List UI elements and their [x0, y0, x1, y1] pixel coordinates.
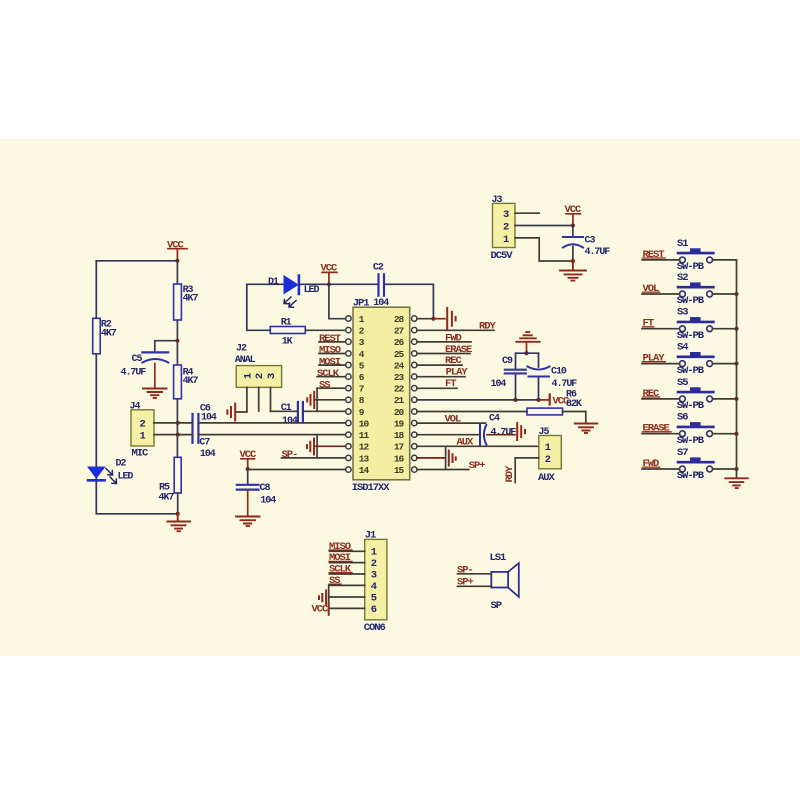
- svg-text:DC5V: DC5V: [491, 250, 514, 262]
- svg-text:104: 104: [200, 449, 216, 460]
- ground (pin16, sideways right): [449, 451, 456, 466]
- power VCC (J1 pin6): [312, 603, 330, 616]
- svg-text:REC: REC: [445, 355, 463, 367]
- node: bottom ground junction: [176, 512, 180, 516]
- net label MISO / wire: J1 pin1: [329, 541, 365, 553]
- net label SP- / wire: LS1 top: [457, 564, 491, 576]
- wire: pin20 row through R6 to ground: [417, 412, 586, 423]
- wire: S7 to bus: [713, 468, 737, 470]
- svg-text:4.7UF: 4.7UF: [552, 379, 578, 390]
- wire: FT to S3: [642, 328, 680, 330]
- wire: J1 pin6: [329, 607, 365, 609]
- wire: C7 row (pin11 net): [178, 434, 346, 436]
- wire: bottom horizontal (D2 branch to ground node): [96, 513, 177, 515]
- svg-text:26: 26: [394, 337, 405, 348]
- wire: J3 pin3 stub: [515, 212, 539, 214]
- capacitor C4 4.7UF: [480, 414, 516, 445]
- svg-text:REC: REC: [643, 388, 661, 400]
- node: pin28/C2 junction: [431, 317, 435, 321]
- svg-text:1: 1: [140, 431, 146, 443]
- capacitor C3 4.7UF: [563, 226, 610, 262]
- node: J3 pin2/C3 junction: [571, 223, 575, 227]
- svg-text:S3: S3: [677, 307, 688, 319]
- wire: J3 pin2 to VCC node: [515, 225, 573, 227]
- ground (right of C4, sideways): [517, 423, 525, 440]
- net label SP+ / wire: LS1 bottom: [457, 577, 491, 589]
- node: J4 pin1 / C7 row junction: [176, 433, 180, 437]
- svg-text:LED: LED: [304, 285, 320, 296]
- svg-text:1: 1: [371, 547, 377, 559]
- svg-text:11: 11: [359, 430, 370, 441]
- wire: button bus vertical: [736, 260, 738, 478]
- svg-text:SW-PB: SW-PB: [677, 330, 705, 342]
- net label SP+ / wire: pin15 row: [417, 460, 485, 472]
- IC pin circles left: [346, 316, 417, 473]
- wire: J2 pin2 stub: [258, 387, 260, 411]
- wire: S4 to bus: [713, 363, 737, 365]
- svg-text:D1: D1: [268, 277, 279, 288]
- svg-text:4K7: 4K7: [183, 376, 199, 387]
- net label REC (S5): [643, 388, 661, 400]
- node: C3/ground junction: [571, 259, 575, 263]
- svg-text:C9: C9: [502, 356, 513, 367]
- svg-text:REST: REST: [643, 249, 665, 261]
- ground (below R6): [575, 424, 598, 434]
- net label REC / wire: pin24 row: [417, 355, 463, 367]
- capacitor C6 104: [193, 404, 217, 460]
- ground (below C3): [560, 261, 586, 281]
- wire: VOL to S2: [642, 293, 680, 295]
- svg-text:4.7UF: 4.7UF: [585, 247, 611, 258]
- svg-text:1: 1: [503, 234, 509, 246]
- svg-text:2: 2: [503, 221, 509, 233]
- connector J1 CON6: [364, 530, 387, 634]
- wire: pins 11-13 vertical bus: [316, 435, 318, 458]
- ground (below R5): [168, 514, 191, 531]
- wire: S3 to bus: [713, 328, 737, 330]
- svg-text:2: 2: [545, 454, 551, 466]
- svg-text:82K: 82K: [566, 399, 582, 410]
- svg-text:22: 22: [394, 384, 405, 395]
- svg-text:AUX: AUX: [538, 472, 556, 484]
- net label ERASE (S6): [643, 423, 672, 435]
- wire: R3/R4 column: [176, 261, 178, 458]
- svg-text:MISO: MISO: [319, 345, 341, 357]
- net label SCLK / wire: J1 pin3: [329, 564, 365, 576]
- svg-text:VOL: VOL: [445, 414, 462, 426]
- ground (above C9/C10, pointing up): [516, 332, 539, 342]
- svg-text:FWD: FWD: [643, 458, 660, 470]
- svg-text:REST: REST: [319, 333, 341, 345]
- resistor R1: [270, 318, 305, 348]
- ground (pin12, sideways): [307, 439, 314, 455]
- svg-text:C2: C2: [373, 262, 384, 273]
- node: C10 bottom junction: [536, 398, 540, 402]
- wire: J1 pin5: [329, 596, 365, 598]
- resistor R6 82K: [527, 390, 582, 415]
- wire: J4 pin1 to node: [154, 434, 178, 436]
- switch S1 SW-PB: [677, 238, 714, 273]
- node: bus junction S3: [735, 327, 739, 331]
- wire: J3 pin1 to ground node: [515, 238, 573, 261]
- net label VOL / wire: pin19 row: [417, 414, 486, 426]
- svg-text:S1: S1: [677, 238, 688, 250]
- capacitor C8 104: [237, 469, 276, 507]
- svg-text:2: 2: [371, 558, 377, 570]
- wire: VCC node to left branch: [96, 260, 177, 262]
- svg-text:17: 17: [394, 442, 405, 453]
- net label MISO / wire: pin4 row: [319, 345, 346, 357]
- svg-text:1K: 1K: [282, 337, 293, 348]
- net label VOL (S2): [643, 283, 660, 295]
- svg-text:SW-PB: SW-PB: [677, 470, 705, 482]
- wire: S5 to bus: [713, 398, 737, 400]
- svg-text:CON6: CON6: [364, 622, 386, 634]
- net label SS / wire: J1 pin4: [329, 575, 365, 587]
- power VCC (C8 / pin14 net): [240, 449, 258, 467]
- svg-text:ANAL: ANAL: [235, 355, 256, 366]
- ground (button bus): [725, 478, 747, 488]
- ground (pin28, sideways right): [447, 308, 455, 330]
- svg-text:4K7: 4K7: [183, 294, 199, 305]
- svg-text:MOSI: MOSI: [319, 356, 341, 368]
- net label MOSI / wire: pin5 row: [319, 356, 346, 368]
- svg-text:28: 28: [394, 314, 405, 325]
- svg-text:3: 3: [503, 209, 509, 221]
- wire: pin18 row through C4 to ground: [417, 434, 480, 436]
- wire: VCC node down to pin1: [329, 284, 346, 318]
- wire: pin21 row (VCC net): [417, 399, 539, 401]
- net label ERASE / wire: pin25 row: [417, 344, 472, 356]
- power VCC (pin21 net): [550, 395, 570, 408]
- wire: J1 pins 4-6 vertical bus: [328, 585, 330, 603]
- wire: D1 to VCC node: [300, 283, 329, 285]
- svg-text:SS: SS: [319, 379, 330, 391]
- capacitor C2 104: [329, 262, 389, 309]
- wire: ground stem to C9/C10 top bus: [526, 343, 528, 354]
- svg-text:27: 27: [394, 326, 405, 337]
- svg-text:RDY: RDY: [479, 321, 497, 333]
- wire: C8 to ground: [247, 491, 249, 516]
- svg-text:VCC: VCC: [167, 239, 185, 251]
- node: VCC/D1/C2/pin1 junction: [327, 282, 331, 286]
- svg-text:PLAY: PLAY: [446, 367, 469, 379]
- wire: PLAY to S4: [642, 363, 680, 365]
- net label MOSI / wire: J1 pin2: [329, 552, 365, 564]
- svg-text:1: 1: [545, 442, 551, 454]
- ground (pin8, sideways): [307, 392, 314, 408]
- LED D1: [247, 276, 320, 308]
- svg-text:1: 1: [242, 373, 254, 379]
- wire: pin16 row to ground: [417, 457, 446, 459]
- switch S3 SW-PB: [677, 307, 714, 342]
- svg-text:4K7: 4K7: [101, 328, 117, 339]
- svg-text:C4: C4: [489, 414, 500, 425]
- svg-text:104: 104: [491, 379, 507, 390]
- net label SCLK / wire: pin6 row: [317, 368, 346, 380]
- wire: C2 to pin28 vertical: [385, 284, 433, 318]
- svg-text:2: 2: [140, 419, 146, 431]
- svg-text:SW-PB: SW-PB: [677, 435, 705, 447]
- svg-text:10: 10: [359, 419, 370, 430]
- wire: S2 to bus: [713, 293, 737, 295]
- svg-text:RDY: RDY: [504, 465, 516, 483]
- wire: pin8 row to ground: [316, 399, 346, 401]
- ground (below C5): [143, 389, 167, 399]
- svg-text:4: 4: [371, 581, 377, 593]
- wire: pins 7-9 vertical bus: [316, 388, 318, 411]
- switch S7 SW-PB: [677, 447, 714, 482]
- net label FT / wire: pin22 row: [417, 378, 457, 390]
- svg-text:ISD17XX: ISD17XX: [352, 482, 391, 494]
- svg-text:C10: C10: [551, 367, 567, 378]
- svg-text:FWD: FWD: [445, 333, 462, 345]
- node: bus junction S4: [735, 362, 739, 366]
- node: R3/R4/C5 junction: [175, 339, 179, 343]
- wire: pin14 row: [248, 469, 346, 471]
- wire: J5 pin2 to RDY stub: [515, 458, 539, 483]
- svg-text:25: 25: [394, 349, 405, 360]
- svg-text:2: 2: [254, 373, 266, 379]
- svg-text:13: 13: [359, 453, 370, 464]
- power VCC (top left net): [167, 239, 187, 260]
- svg-text:15: 15: [394, 465, 405, 476]
- wire: pin12 row to ground: [316, 445, 346, 447]
- svg-text:SP+: SP+: [469, 460, 486, 472]
- ground (left of J2 pin1, sideways): [227, 404, 235, 421]
- svg-text:18: 18: [394, 430, 405, 441]
- svg-text:AUX: AUX: [457, 436, 475, 448]
- wire: REC to S5: [642, 398, 680, 400]
- svg-text:S4: S4: [677, 342, 688, 354]
- switch S6 SW-PB: [677, 412, 714, 447]
- svg-text:C7: C7: [199, 438, 210, 449]
- net label FWD / wire: pin26 row: [417, 333, 471, 345]
- net label RDY / wire: pin27 row: [417, 321, 497, 333]
- node: C9/C10 top junction: [524, 351, 528, 355]
- svg-text:104: 104: [282, 416, 298, 427]
- connector J2 ANAL: [235, 343, 282, 387]
- svg-text:3: 3: [266, 373, 278, 379]
- wire: D1 loop (left vertical + to R1): [247, 284, 270, 330]
- ground (J1 pin5, sideways): [319, 590, 326, 604]
- ground (below C8): [236, 517, 260, 527]
- svg-text:SP: SP: [491, 600, 502, 612]
- capacitor C1 104: [281, 402, 303, 427]
- capacitor C10 4.7UF: [528, 353, 578, 400]
- svg-text:14: 14: [359, 465, 370, 476]
- resistor R5: [159, 457, 182, 503]
- wire: pin28 row to C2 vertical and ground: [417, 318, 434, 320]
- wire: pin7 row (SS): [317, 387, 346, 389]
- svg-text:ERASE: ERASE: [643, 423, 670, 435]
- wire: ERASE to S6: [642, 433, 680, 435]
- svg-text:LED: LED: [118, 471, 134, 482]
- svg-text:104: 104: [260, 496, 276, 507]
- net label SP- / wire: pin13 row: [282, 449, 346, 461]
- svg-text:C3: C3: [585, 236, 596, 247]
- svg-text:C8: C8: [260, 483, 271, 494]
- svg-text:LS1: LS1: [490, 552, 507, 564]
- wire: C6 row (pin10 net): [178, 422, 346, 424]
- svg-text:J2: J2: [236, 343, 247, 354]
- svg-text:SW-PB: SW-PB: [677, 365, 705, 377]
- switch S2 SW-PB: [677, 272, 714, 307]
- svg-text:S6: S6: [677, 412, 688, 424]
- net label FT (S3): [643, 318, 654, 330]
- wire: J4 pin2 to node: [154, 422, 178, 424]
- svg-text:23: 23: [394, 372, 405, 383]
- switch S5 SW-PB: [677, 377, 714, 412]
- svg-text:6: 6: [371, 604, 377, 616]
- svg-text:24: 24: [394, 360, 405, 371]
- capacitor C9 104: [491, 353, 526, 400]
- node: bus junction S5: [735, 397, 739, 401]
- wire: left vertical (R2/D2 branch): [95, 261, 97, 514]
- wire: R1 to pin2: [305, 329, 345, 331]
- svg-text:21: 21: [394, 395, 405, 406]
- net label PLAY / wire: pin23 row: [417, 367, 468, 379]
- connector J3 DC5V: [491, 195, 516, 262]
- node: bus junction S6: [735, 432, 739, 436]
- wire: junction to C5: [155, 341, 178, 352]
- resistor R3: [174, 284, 199, 320]
- LED D2: [88, 459, 133, 484]
- svg-text:20: 20: [394, 407, 405, 418]
- wire: FWD to S7: [642, 468, 680, 470]
- wire: pin15-17 vertical tie: [445, 447, 447, 470]
- svg-text:19: 19: [394, 419, 405, 430]
- svg-text:S5: S5: [677, 377, 688, 389]
- wire: C9/C10 top bus: [516, 352, 539, 354]
- wire: REST to S1: [642, 259, 680, 261]
- node: J4 pin2 / C6 row junction: [176, 421, 180, 425]
- svg-text:5: 5: [371, 593, 377, 605]
- svg-text:12: 12: [359, 442, 370, 453]
- svg-text:FT: FT: [445, 378, 456, 390]
- svg-text:S2: S2: [677, 272, 688, 284]
- node: bus junction S7: [735, 467, 739, 471]
- net label REST / wire: pin3 row: [319, 333, 346, 345]
- resistor R2: [93, 318, 117, 354]
- svg-text:4K7: 4K7: [159, 492, 175, 503]
- svg-text:SP-: SP-: [282, 449, 298, 461]
- resistor R4: [174, 365, 199, 399]
- svg-text:C1: C1: [281, 403, 292, 414]
- speaker LS1 SP: [490, 552, 519, 612]
- svg-text:4.7UF: 4.7UF: [491, 427, 517, 438]
- svg-text:SW-PB: SW-PB: [677, 400, 705, 412]
- node: VCC/R3 junction: [175, 259, 179, 263]
- node: bus junction S2: [735, 292, 739, 296]
- node: VCC/C8/pin14 junction: [246, 467, 250, 471]
- svg-text:SCLK: SCLK: [317, 368, 340, 380]
- net label REST (S1): [643, 249, 666, 261]
- wire: R5 bottom to ground node: [177, 493, 179, 514]
- net label AUX / wire: pin17 row: [417, 436, 539, 448]
- svg-text:16: 16: [394, 453, 405, 464]
- power VCC (LED / pin1 net): [321, 263, 339, 283]
- wire: S1 to bus: [713, 259, 737, 261]
- switch S4 SW-PB: [677, 342, 714, 377]
- wire: J2 pin3 to C1 row: [270, 387, 272, 411]
- net label PLAY (S4): [643, 353, 666, 365]
- svg-text:VOL: VOL: [643, 283, 660, 295]
- wire: J2 pin1 down to ground: [237, 387, 247, 412]
- svg-text:104: 104: [201, 413, 217, 424]
- svg-text:MIC: MIC: [132, 448, 150, 460]
- net label FWD (S7): [643, 458, 660, 470]
- wire: S6 to bus: [713, 433, 737, 435]
- wire: pin9 row through C1: [271, 410, 346, 412]
- node: C9 bottom junction: [513, 398, 517, 402]
- wire: C5 to ground: [154, 364, 156, 388]
- power VCC (DC input): [565, 204, 583, 225]
- svg-text:C5: C5: [132, 354, 143, 365]
- svg-text:PLAY: PLAY: [643, 353, 666, 365]
- capacitor C5 4.7UF: [121, 352, 169, 378]
- svg-text:D2: D2: [116, 459, 127, 470]
- svg-text:R1: R1: [281, 318, 292, 329]
- connector J4 MIC: [130, 402, 155, 460]
- svg-text:S7: S7: [677, 447, 688, 459]
- svg-text:SW-PB: SW-PB: [677, 295, 705, 307]
- svg-text:FT: FT: [643, 318, 654, 330]
- svg-text:4.7UF: 4.7UF: [121, 367, 147, 378]
- connector J5 AUX: [538, 427, 561, 484]
- IC U1 JP1 ISD17XX: [352, 297, 410, 493]
- svg-text:3: 3: [371, 570, 377, 582]
